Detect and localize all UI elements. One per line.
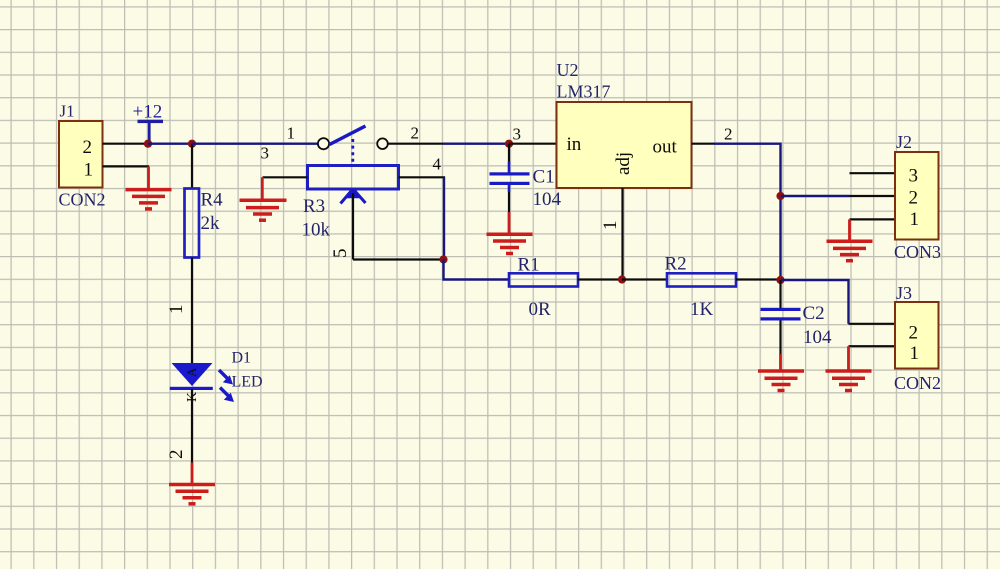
- ground under C2: [758, 354, 804, 391]
- svg-text:R2: R2: [665, 253, 687, 274]
- svg-text:C2: C2: [803, 303, 825, 324]
- svg-text:+12: +12: [133, 102, 163, 123]
- junction F1: [776, 192, 784, 200]
- LED D1: [170, 350, 263, 403]
- svg-text:10k: 10k: [302, 220, 331, 241]
- svg-text:5: 5: [330, 249, 351, 259]
- wire R2 to junction F2: [736, 278, 781, 280]
- wire E to R2: [622, 278, 667, 280]
- svg-text:104: 104: [533, 189, 562, 210]
- U2 in pin stub: [509, 143, 557, 145]
- J3 pin 1 stub: [849, 345, 896, 347]
- svg-text:J1: J1: [60, 102, 75, 121]
- svg-text:C1: C1: [533, 167, 555, 188]
- svg-text:2: 2: [83, 137, 93, 158]
- power port +12: [133, 102, 164, 144]
- R3 wiper arrow: [341, 189, 366, 260]
- J1 pin 2 stub: [103, 143, 149, 145]
- svg-text:A: A: [184, 367, 199, 377]
- J1 pin 1 stub: [103, 165, 150, 167]
- svg-text:3: 3: [513, 125, 522, 144]
- regulator U2: [557, 60, 692, 188]
- J2 pin 1 stub: [850, 218, 896, 220]
- junction D: [439, 255, 447, 263]
- svg-text:2: 2: [909, 323, 919, 344]
- J2 pin 2 stub: [850, 195, 896, 197]
- ground at J2 pin 1: [827, 219, 873, 260]
- svg-text:4: 4: [433, 155, 442, 174]
- resistor R4: [185, 189, 224, 258]
- svg-text:D1: D1: [232, 350, 252, 367]
- junction A: [144, 140, 152, 148]
- svg-text:CON2: CON2: [59, 190, 106, 210]
- ground under C1: [487, 212, 533, 254]
- wire D down and to R1: [444, 260, 510, 280]
- wire A-B: [148, 142, 192, 144]
- connector J3: [894, 283, 941, 393]
- svg-text:2: 2: [166, 450, 187, 460]
- svg-text:3: 3: [261, 144, 270, 163]
- wire R1 to junction E: [578, 278, 622, 280]
- switch left contact: [318, 138, 329, 149]
- wire B down to R4: [191, 144, 193, 189]
- svg-text:LM317: LM317: [557, 82, 611, 102]
- switch lever: [330, 126, 366, 145]
- svg-text:R4: R4: [201, 190, 224, 211]
- svg-text:2: 2: [909, 188, 919, 209]
- svg-text:1K: 1K: [690, 299, 714, 320]
- svg-text:1: 1: [166, 305, 187, 315]
- svg-text:104: 104: [803, 327, 832, 348]
- ground at J3 pin 1: [826, 346, 872, 390]
- capacitor C2: [761, 280, 833, 354]
- connector J1: [59, 102, 106, 210]
- J3 pin 2 stub: [849, 323, 896, 325]
- svg-text:2: 2: [724, 125, 733, 144]
- wire F1 to J2 pin2: [781, 195, 850, 197]
- switch right contact: [377, 138, 388, 149]
- svg-text:J3: J3: [896, 283, 912, 303]
- svg-text:1: 1: [910, 343, 920, 364]
- svg-text:R3: R3: [303, 196, 325, 217]
- junction E: [618, 275, 626, 283]
- R3 pin 3 stub: [263, 176, 308, 178]
- junction C: [505, 140, 513, 148]
- wire F2 to J3: [781, 280, 849, 324]
- wire wiper to junction D: [353, 258, 444, 260]
- svg-text:1: 1: [84, 160, 94, 181]
- wire switch to junction C: [388, 143, 443, 145]
- svg-text:LED: LED: [232, 374, 263, 391]
- switch dotted link: [351, 139, 354, 163]
- resistor R2: [665, 253, 737, 320]
- svg-text:2: 2: [411, 124, 420, 143]
- svg-text:J2: J2: [896, 132, 912, 152]
- svg-text:in: in: [567, 134, 582, 155]
- wire LED to ground: [191, 389, 193, 463]
- svg-text:adj: adj: [613, 152, 634, 175]
- junction B: [188, 140, 196, 148]
- junction F2: [776, 276, 784, 284]
- resistor R1: [509, 254, 578, 320]
- svg-text:1: 1: [910, 209, 920, 230]
- U2 out pin stub: [692, 143, 715, 145]
- R3 pin 4 stub: [399, 176, 446, 178]
- capacitor C1: [490, 144, 562, 212]
- svg-text:2k: 2k: [201, 213, 221, 234]
- svg-text:out: out: [653, 137, 678, 158]
- wire corner to junction F1 and F2: [779, 196, 781, 280]
- svg-text:1: 1: [287, 124, 296, 143]
- ground at R3 pin 3: [240, 177, 287, 220]
- wire pin4 down: [443, 177, 445, 259]
- U2 adj pin: [621, 188, 623, 280]
- potentiometer R3: [302, 166, 399, 241]
- ground under J1 pin1: [126, 166, 172, 209]
- svg-text:R1: R1: [518, 254, 540, 275]
- wire B to switch: [192, 142, 318, 144]
- svg-text:CON2: CON2: [894, 373, 941, 393]
- svg-text:1: 1: [600, 221, 621, 231]
- svg-text:CON3: CON3: [894, 242, 941, 262]
- J2 pin 3 stub: [850, 172, 896, 174]
- svg-text:0R: 0R: [529, 299, 552, 320]
- ground under D1: [169, 463, 215, 504]
- connector J2: [894, 132, 941, 262]
- wire R4 to LED: [191, 258, 193, 365]
- wire out to corner: [714, 144, 781, 196]
- svg-text:U2: U2: [557, 60, 579, 80]
- svg-text:3: 3: [909, 166, 919, 187]
